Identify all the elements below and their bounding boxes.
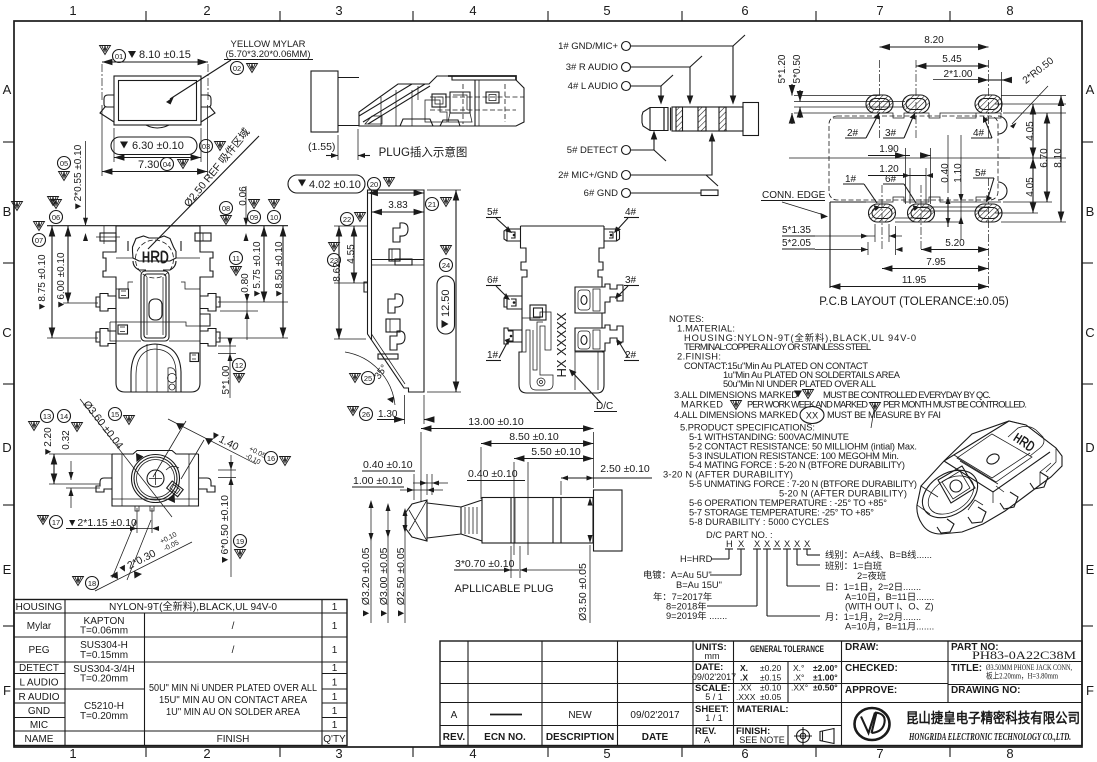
suction dashed circle (136, 240, 174, 278)
svg-text:09/02'2017: 09/02'2017 (692, 672, 736, 682)
company logo (855, 708, 890, 740)
svg-text:5#: 5# (487, 207, 499, 218)
svg-text:1: 1 (332, 621, 338, 632)
iso HRD text (1014, 433, 1035, 451)
svg-text:8.62: 8.62 (332, 262, 343, 282)
svg-text:C: C (1085, 325, 1094, 340)
5# tab (504, 229, 515, 241)
R0.50 ear bottom-right (998, 182, 1007, 200)
svg-text:4.ALL DIMENSIONS MARKED: 4.ALL DIMENSIONS MARKED (674, 410, 798, 420)
svg-text:8.50 ±0.10: 8.50 ±0.10 (509, 431, 559, 443)
svg-text:1: 1 (332, 720, 338, 731)
iso top plate inner (957, 434, 1032, 482)
svg-text:8: 8 (1006, 746, 1013, 761)
rows (440, 661, 1082, 663)
svg-text:H=HRD: H=HRD (680, 554, 713, 564)
centerline ticks (101, 64, 103, 101)
insertion feet (400, 119, 460, 126)
svg-text:5-2 CONTACT RESISTANCE: 50 MIL: 5-2 CONTACT RESISTANCE: 50 MILLIOHM (int… (689, 442, 917, 452)
svg-text:C: C (2, 325, 11, 340)
solder edge solid line top with notches (833, 113, 1001, 118)
side divider (372, 259, 425, 261)
svg-text:DRAWING NO:: DRAWING NO: (951, 685, 1020, 696)
dim 0.40 vertical (940, 163, 951, 183)
R0.50 ear top-right (998, 116, 1007, 134)
svg-text:21: 21 (428, 200, 436, 209)
pad 4# (975, 95, 1002, 113)
rear body (112, 451, 199, 507)
svg-text:04: 04 (163, 160, 171, 169)
svg-text:5 / 1: 5 / 1 (705, 692, 723, 702)
svg-text:.XX: .XX (738, 683, 752, 693)
svg-text:A: A (1086, 82, 1095, 97)
svg-text:12.50: 12.50 (440, 289, 452, 317)
solder edge solid line bottom with notches (866, 197, 1001, 202)
svg-text:0.40 ±0.10: 0.40 ±0.10 (468, 468, 518, 480)
dim 4.02 stadium (288, 175, 365, 193)
svg-text:1: 1 (332, 645, 338, 656)
iso body silhouette (917, 421, 1062, 534)
svg-text:1.90: 1.90 (879, 144, 899, 155)
dim 6.70 (1039, 148, 1050, 168)
dim 5.75 / 8.50 right (249, 200, 260, 209)
svg-text:5#: 5# (975, 168, 987, 179)
svg-text:2.FINISH:: 2.FINISH: (677, 352, 721, 362)
svg-text:2*1.00: 2*1.00 (944, 69, 973, 80)
svg-text:5-5 UNMATING FORCE : 7-20 N (: 5-5 UNMATING FORCE : 7-20 N (BTFORE DURA… (689, 479, 917, 489)
svg-text:5.45: 5.45 (942, 54, 962, 65)
dim 6*0.50 (219, 495, 231, 565)
svg-text:PH83-0A22C38M: PH83-0A22C38M (972, 648, 1076, 662)
general tolerance block (736, 644, 838, 702)
svg-text:1: 1 (332, 706, 338, 717)
svg-text:F: F (1086, 683, 1094, 698)
svg-text:MUST BE CONTROLLED EVERYDAY BY: MUST BE CONTROLLED EVERYDAY BY QC. (823, 390, 991, 400)
dim 4.05 upper (1025, 121, 1036, 141)
svg-text:3-20 N (AFTER DURABILITY): 3-20 N (AFTER DURABILITY) (663, 470, 793, 480)
svg-text:/: / (232, 645, 235, 656)
plug neck (427, 503, 461, 538)
svg-text:H: H (726, 539, 733, 549)
svg-text:板上2.20mm，H=3.80mm: 板上2.20mm，H=3.80mm (986, 671, 1059, 681)
svg-text:ECN NO.: ECN NO. (484, 732, 526, 743)
svg-text:11: 11 (232, 254, 240, 263)
pin leaders with labels (843, 113, 994, 211)
svg-text:0.40: 0.40 (940, 163, 951, 183)
svg-text:4.05: 4.05 (1025, 177, 1036, 197)
dome latch detail (168, 368, 176, 392)
svg-text:PEG: PEG (28, 645, 49, 656)
svg-text:APPROVE:: APPROVE: (845, 685, 897, 696)
svg-text:D: D (1085, 440, 1094, 455)
svg-text:24: 24 (442, 261, 450, 270)
material table grid (14, 600, 347, 746)
iso inner oval plate (938, 466, 975, 503)
top-right tab (195, 233, 211, 241)
dim 0.06 right (220, 202, 233, 215)
wire 4# (631, 75, 674, 103)
svg-text:6: 6 (741, 3, 748, 18)
svg-text:T=0.20mm: T=0.20mm (80, 674, 128, 685)
svg-text:年：7=2017年: 年：7=2017年 (653, 591, 712, 602)
svg-text:1: 1 (332, 678, 338, 689)
svg-text:1.20: 1.20 (879, 164, 899, 175)
svg-text:A: A (704, 735, 710, 745)
3# contact assembly (575, 284, 623, 313)
svg-text:D/C: D/C (596, 401, 613, 412)
iso top oval hole (985, 452, 1001, 466)
svg-text:25: 25 (364, 374, 372, 383)
crown recess outline (128, 241, 181, 270)
svg-text:5-7 STORAGE TEMPERATURE: -25°: 5-7 STORAGE TEMPERATURE: -25° TO +85° (689, 508, 874, 518)
projection symbol (794, 727, 834, 745)
plug tip (406, 500, 427, 541)
dim dia 3.60 diagonal (109, 408, 122, 421)
svg-text:5.PRODUCT SPECIFICATIONS:: 5.PRODUCT SPECIFICATIONS: (680, 423, 815, 433)
svg-text:P.C.B LAYOUT (TOLERANCE:±0.0: P.C.B LAYOUT (TOLERANCE:±0.05) (819, 296, 1009, 308)
svg-text:CONN. EDGE: CONN. EDGE (762, 190, 826, 201)
svg-text:0.40 ±0.10: 0.40 ±0.10 (363, 459, 413, 471)
svg-text:4.02 ±0.10: 4.02 ±0.10 (309, 179, 361, 191)
svg-text:7.95: 7.95 (926, 257, 946, 268)
mylar inner box (119, 81, 197, 121)
svg-text:3# R AUDIO: 3# R AUDIO (566, 62, 618, 73)
interior ledge lines (116, 257, 133, 259)
extension lines left (47, 303, 98, 338)
svg-text:E: E (3, 562, 12, 577)
wire 3# (631, 56, 703, 103)
svg-text:▼1.40: ▼1.40 (208, 429, 241, 454)
svg-text:6#: 6# (487, 275, 499, 286)
svg-text:2: 2 (203, 3, 210, 18)
pad 3# (903, 95, 930, 113)
revision row entries (443, 710, 680, 743)
left pin lower (96, 329, 116, 347)
svg-text:A: A (451, 710, 458, 721)
center column labels (695, 642, 789, 737)
svg-text:XX: XX (806, 411, 818, 421)
2# contact assembly (575, 325, 623, 351)
svg-text:2.50 ±0.10: 2.50 ±0.10 (600, 463, 650, 475)
plug end cap (594, 490, 623, 551)
svg-text:▼6.00 ±0.10: ▼6.00 ±0.10 (56, 252, 67, 310)
rev history columns (467, 641, 469, 746)
rear left hook lead (96, 478, 112, 492)
plug dim extension lines (421, 432, 594, 555)
svg-text:8.10 ±0.15: 8.10 ±0.15 (139, 49, 191, 61)
dim 1.10 vertical (953, 163, 964, 183)
note4 XX circle (800, 407, 824, 424)
svg-text:▼6*0.50 ±0.10: ▼6*0.50 ±0.10 (219, 495, 231, 565)
horizontal joint line (110, 322, 200, 326)
svg-text:A=10日，B=11日.......: A=10日，B=11日....... (845, 592, 934, 602)
bottom joint line (116, 340, 141, 342)
svg-text:1: 1 (69, 746, 76, 761)
svg-text:6# GND: 6# GND (584, 188, 618, 199)
svg-text:X: X (754, 539, 760, 549)
zone column labels top (69, 3, 1013, 18)
svg-text:1#: 1# (487, 350, 499, 361)
svg-text:班别：1=白班: 班别：1=白班 (825, 560, 882, 571)
HRD logo text (144, 252, 168, 263)
svg-text:03: 03 (202, 142, 210, 151)
svg-text:1: 1 (332, 692, 338, 703)
svg-text:Ø3.60 ±0.04: Ø3.60 ±0.04 (80, 399, 125, 452)
side slots lower (388, 294, 403, 313)
svg-text:50u"Min NI UNDER PLATED OVER A: 50u"Min NI UNDER PLATED OVER ALL (723, 379, 876, 389)
svg-text:3.83: 3.83 (388, 200, 408, 211)
crown plateau (133, 236, 177, 261)
top extension line (47, 225, 288, 227)
iso right tabs (1030, 472, 1048, 489)
svg-text:X: X (774, 539, 780, 549)
rear right hook lead (199, 478, 216, 492)
dim 2*1.15 (38, 516, 49, 525)
svg-text:X: X (738, 539, 744, 549)
svg-text:DETECT: DETECT (19, 663, 59, 674)
svg-text:TITLE:: TITLE: (951, 663, 982, 674)
iso top face outline (944, 421, 1050, 492)
1# contact (504, 328, 522, 344)
insertion barrel lines (338, 77, 359, 79)
rear bottom tails (135, 506, 154, 511)
svg-text:8: 8 (1006, 3, 1013, 18)
center channel outer (141, 271, 169, 341)
svg-text:▼2*0.55 ±0.10: ▼2*0.55 ±0.10 (73, 144, 84, 211)
svg-text:17: 17 (52, 518, 60, 527)
pad 5# (975, 204, 1002, 222)
svg-text:08: 08 (222, 204, 230, 213)
svg-text:5-1 WITHSTANDING: 500VAC/MINUT: 5-1 WITHSTANDING: 500VAC/MINUTE (689, 432, 849, 442)
side inner wall (371, 190, 373, 340)
side small step left (364, 282, 368, 292)
svg-text:.XX°: .XX° (791, 683, 808, 693)
dim 4.05 lower (1025, 177, 1036, 197)
wire 2# (631, 134, 719, 186)
svg-text:5-4 MATING FORCE : 5-20 N (BT: 5-4 MATING FORCE : 5-20 N (BTFORE DURABI… (689, 460, 905, 470)
svg-text:▼ Ø3.20 ±0.05: ▼ Ø3.20 ±0.05 (360, 547, 372, 618)
plug barrel (482, 498, 593, 544)
svg-text:7.30: 7.30 (138, 159, 159, 171)
top-left tab (100, 233, 116, 241)
frame row ticks left (3, 142, 14, 626)
pad 6# (908, 204, 935, 222)
left wing (100, 95, 114, 122)
svg-text:NYLON-9T(全新料),BLACK,UL 94V-0: NYLON-9T(全新料),BLACK,UL 94V-0 (109, 600, 277, 613)
small square feature 1 (119, 289, 129, 298)
svg-text:5-20 N (AFTER DURABILITY): 5-20 N (AFTER DURABILITY) (779, 489, 907, 499)
svg-text:T=0.15mm: T=0.15mm (80, 650, 128, 661)
dim 5*1.00 (221, 365, 232, 394)
svg-text:18: 18 (88, 579, 96, 588)
svg-text:(1.55): (1.55) (308, 141, 335, 153)
svg-text:▼5.75 ±0.10: ▼5.75 ±0.10 (252, 241, 263, 299)
svg-text:B: B (3, 204, 12, 219)
frame column ticks bottom (146, 747, 950, 757)
svg-text:9=2019年 .......: 9=2019年 ....... (666, 610, 727, 621)
dome inner verticals (146, 344, 148, 392)
svg-text:26: 26 (362, 410, 370, 419)
svg-text:5*1.20: 5*1.20 (777, 54, 788, 83)
rear detect switch detail (167, 481, 184, 497)
plug symbol (schematic) (642, 103, 759, 136)
svg-text:2*R0.50: 2*R0.50 (1021, 55, 1057, 86)
svg-text:(WITH OUT I、O、Z): (WITH OUT I、O、Z) (845, 602, 934, 612)
svg-text:MARKED: MARKED (681, 400, 723, 410)
svg-text:7: 7 (876, 3, 883, 18)
svg-text:09/02'2017: 09/02'2017 (630, 710, 680, 721)
svg-text:±0.10: ±0.10 (760, 683, 781, 693)
svg-text:R AUDIO: R AUDIO (18, 692, 59, 703)
svg-text:4: 4 (469, 746, 476, 761)
svg-text:DESCRIPTION: DESCRIPTION (546, 732, 614, 743)
right inner lines (575, 287, 602, 352)
dome (131, 344, 181, 392)
svg-text:X: X (794, 539, 800, 549)
svg-text:▼2.20: ▼2.20 (43, 427, 54, 457)
dim 0.80 (230, 252, 243, 265)
svg-text:5: 5 (603, 3, 610, 18)
zone row labels right (1085, 82, 1094, 698)
mylar outer box (114, 76, 201, 125)
svg-text:4.05: 4.05 (1025, 121, 1036, 141)
top conn lines extending left (794, 96, 905, 114)
dim 8.20 (880, 46, 989, 48)
dim 8.75 left (12, 202, 23, 211)
svg-text:06: 06 (52, 213, 60, 222)
svg-text:1.10: 1.10 (953, 163, 964, 183)
svg-text:NEW: NEW (568, 710, 592, 721)
dim 12.50 stadium (441, 246, 452, 255)
insertion body outline (359, 76, 524, 126)
svg-text:B=Au 15U": B=Au 15U" (676, 580, 722, 590)
svg-text:.XXX: .XXX (736, 692, 756, 702)
dim 6.30 stadium (111, 137, 197, 155)
svg-text:16: 16 (267, 454, 275, 463)
dia dims vertical (360, 547, 372, 618)
svg-text:GENERAL TOLERANCE: GENERAL TOLERANCE (750, 644, 824, 655)
dim 2*0.55 (58, 157, 71, 170)
svg-text:MUST BE MEASURE BY FAI: MUST BE MEASURE BY FAI (827, 410, 941, 420)
svg-text:5-8 DURABILITY : 5000 CYCLES: 5-8 DURABILITY : 5000 CYCLES (689, 517, 829, 527)
svg-text:B: B (1086, 204, 1095, 219)
svg-text:±0.50°: ±0.50° (813, 683, 838, 693)
dim 8.62 (329, 243, 340, 252)
svg-text:E: E (1086, 562, 1095, 577)
dim 5.45 (916, 65, 989, 67)
dc tree underline marks (725, 548, 811, 550)
svg-text:DRAW:: DRAW: (845, 642, 879, 653)
svg-text:13: 13 (43, 412, 51, 421)
dim 2*0.30 diagonal (73, 577, 84, 586)
svg-text:6.30 ±0.10: 6.30 ±0.10 (132, 140, 184, 152)
svg-text:D: D (2, 440, 11, 455)
svg-text:3: 3 (335, 746, 342, 761)
svg-text:2=夜班: 2=夜班 (857, 570, 886, 581)
dim 1.40 diagonal (280, 457, 291, 466)
svg-text:4: 4 (469, 3, 476, 18)
svg-text:PLUG插入示意图: PLUG插入示意图 (379, 145, 468, 159)
svg-text:L AUDIO: L AUDIO (19, 678, 58, 689)
svg-text:±0.05: ±0.05 (760, 692, 781, 702)
wire 5# (631, 132, 667, 161)
dc tree connector lines (707, 549, 820, 616)
svg-text:50U" MIN Ni UNDER PLATED OVER: 50U" MIN Ni UNDER PLATED OVER ALL (149, 683, 317, 694)
svg-text:电镀：A=Au 5U": 电镀：A=Au 5U" (643, 569, 712, 580)
svg-text:A: A (3, 82, 12, 97)
svg-text:5*1.35: 5*1.35 (782, 225, 811, 236)
dim 8.10 (1053, 148, 1064, 168)
svg-text:日：1=1日，2=2日.......: 日：1=1日，2=2日....... (825, 582, 921, 592)
revision dash (490, 714, 522, 716)
svg-text:0.80: 0.80 (240, 273, 251, 293)
body outline (103, 226, 213, 392)
svg-text:0.32: 0.32 (61, 430, 72, 450)
bottom view outline (507, 226, 617, 393)
svg-text:HONGRIDA ELECTRONIC TECHNOLOGY: HONGRIDA ELECTRONIC TECHNOLOGY CO.,LTD. (908, 732, 1071, 743)
pin terminal circles (622, 42, 631, 198)
pin name labels (558, 41, 618, 199)
extension lines right (218, 302, 288, 338)
right pin lower (200, 329, 220, 347)
svg-text:PER MONTH MUST BE CONTROLLED.: PER MONTH MUST BE CONTROLLED. (883, 400, 1027, 410)
svg-text:1.MATERIAL:: 1.MATERIAL: (677, 324, 735, 334)
iso right side face (993, 421, 1056, 503)
svg-text:F: F (3, 683, 11, 698)
svg-text:11.95: 11.95 (902, 275, 927, 286)
dim 5*1.20 5*0.50 left (777, 54, 788, 83)
svg-text:±1.00°: ±1.00° (813, 673, 838, 683)
svg-text:X: X (804, 539, 810, 549)
svg-text:Q'TY: Q'TY (323, 734, 346, 745)
right pin upper (200, 294, 220, 312)
svg-text:07: 07 (35, 236, 43, 245)
svg-text:2#: 2# (847, 128, 859, 139)
svg-text:▼2*1.15 ±0.10: ▼2*1.15 ±0.10 (67, 517, 137, 529)
svg-text:3#: 3# (625, 275, 637, 286)
svg-text:▼8.75 ±0.10: ▼8.75 ±0.10 (37, 254, 48, 312)
svg-text:5*2.05: 5*2.05 (782, 238, 811, 249)
svg-text:T=0.20mm: T=0.20mm (80, 711, 128, 722)
conn edge solid boundary (830, 202, 866, 288)
svg-text:1: 1 (69, 3, 76, 18)
svg-text:X.: X. (740, 663, 748, 673)
svg-text:6: 6 (741, 746, 748, 761)
svg-text:5.20: 5.20 (945, 238, 965, 249)
svg-text:01: 01 (115, 52, 123, 61)
wire 1# (631, 35, 746, 103)
svg-text:4#: 4# (973, 128, 985, 139)
dim 4.55 (341, 213, 354, 226)
svg-text:3#: 3# (885, 128, 897, 139)
svg-text:±0.20: ±0.20 (760, 663, 781, 673)
svg-text:DATE: DATE (642, 732, 669, 743)
dim 1.30 (348, 407, 359, 416)
right wing (201, 95, 215, 122)
svg-text:NOTES:: NOTES: (669, 314, 704, 324)
pad 2# (866, 95, 893, 113)
svg-text:15: 15 (111, 410, 119, 419)
date code text (554, 312, 569, 377)
rear circle rings (132, 455, 180, 503)
svg-text:5: 5 (603, 746, 610, 761)
side body outline (368, 190, 425, 392)
insertion block (311, 71, 338, 132)
svg-text:/: / (232, 621, 235, 632)
svg-text:09: 09 (250, 213, 258, 222)
svg-text:±2.00°: ±2.00° (813, 663, 838, 673)
svg-text:0.06: 0.06 (238, 186, 249, 206)
